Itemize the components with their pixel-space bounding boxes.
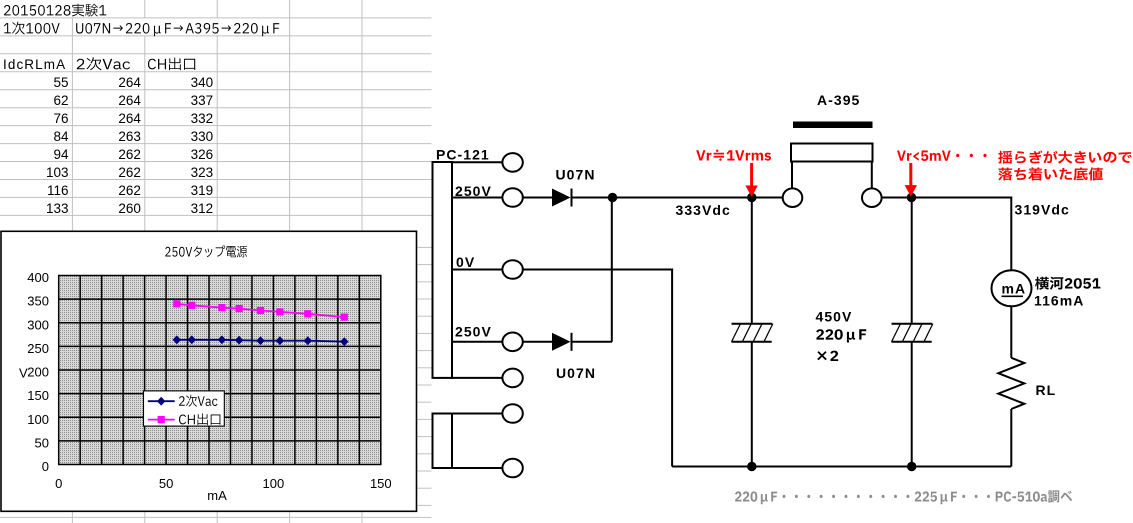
svg-text:262: 262 — [118, 147, 141, 162]
svg-text:337: 337 — [191, 93, 214, 108]
choke A-395 core bar — [793, 122, 873, 129]
svg-text:150: 150 — [27, 388, 49, 403]
transformer PC-121 primary/secondary box — [433, 162, 453, 378]
svg-text:250: 250 — [27, 341, 49, 356]
svg-text:76: 76 — [53, 111, 68, 126]
terminal 2 (250V) — [502, 188, 522, 207]
diode D1 U07N — [552, 189, 572, 207]
svg-text:100: 100 — [263, 476, 285, 491]
label 319Vdc — [1015, 202, 1070, 218]
junction C1 bottom — [747, 462, 756, 471]
capacitor C1 bottom lead — [751, 342, 753, 467]
svg-text:319Vdc: 319Vdc — [1015, 202, 1070, 218]
gray note 220uF/225uF PC-510a — [735, 490, 1072, 504]
svg-text:62: 62 — [53, 93, 68, 108]
svg-text:100: 100 — [27, 412, 49, 427]
svg-text:IdcRLmA: IdcRLmA — [3, 57, 66, 72]
svg-text:U07N: U07N — [556, 365, 596, 381]
svg-text:260: 260 — [118, 201, 141, 216]
choke terminal left — [783, 188, 803, 207]
choke lead left — [791, 162, 793, 189]
svg-text:A-395: A-395 — [817, 92, 860, 108]
label 333Vdc — [676, 202, 731, 218]
svg-text:50: 50 — [35, 436, 49, 451]
svg-text:150: 150 — [370, 476, 392, 491]
svg-text:350: 350 — [27, 294, 49, 309]
label U07N lower — [556, 365, 596, 381]
wire 250V upper to terminal 2 — [452, 197, 502, 199]
diode D2 U07N — [552, 333, 572, 351]
svg-text:323: 323 — [191, 165, 214, 180]
meter M1 mA — [992, 270, 1032, 306]
label 116mA — [1034, 293, 1084, 309]
wire 0V to terminal 3 — [452, 269, 502, 271]
wire D2 up to junction — [611, 198, 613, 342]
svg-text:332: 332 — [191, 111, 214, 126]
svg-text:0V: 0V — [456, 254, 475, 270]
label Yokogawa 2051 — [1035, 277, 1100, 290]
red annotation fluctuation line2 — [998, 167, 1103, 180]
label 450V 220uF x2 — [816, 308, 867, 361]
svg-text:U07N: U07N — [556, 167, 596, 183]
red annotation Vr≒1Vrms — [696, 150, 771, 161]
label 250V upper — [455, 183, 492, 199]
label 250V lower — [455, 324, 492, 340]
svg-text:50: 50 — [159, 476, 173, 491]
wire meter to resistor — [1010, 306, 1012, 358]
capacitor C2 top lead — [911, 198, 913, 324]
svg-text:mA: mA — [1002, 281, 1027, 297]
wire to terminal 1 — [452, 161, 502, 163]
svg-text:PC-121: PC-121 — [436, 147, 490, 163]
wire 0V down to bottom rail — [671, 269, 673, 467]
label U07N upper — [556, 167, 596, 183]
capacitor C2 bottom lead — [911, 342, 913, 467]
svg-text:0: 0 — [42, 459, 49, 474]
capacitor C2 220uF — [892, 324, 933, 342]
choke terminal right — [862, 188, 882, 207]
svg-text:319: 319 — [191, 183, 214, 198]
svg-text:264: 264 — [118, 93, 141, 108]
svg-text:RL: RL — [1036, 382, 1057, 398]
wire D1 cathode to node 333Vdc — [572, 197, 613, 199]
svg-text:250V: 250V — [455, 324, 492, 340]
terminal 5 — [502, 369, 522, 388]
svg-text:116: 116 — [47, 183, 69, 198]
wire D2 cathode right — [572, 341, 613, 343]
red arrow to C1 node — [745, 163, 757, 197]
choke lead right — [871, 162, 873, 189]
wire terminal 7 (box2 bottom) — [452, 467, 502, 469]
terminal 1 — [502, 153, 522, 172]
junction C2 bottom — [907, 462, 916, 471]
svg-text:333Vdc: 333Vdc — [676, 202, 731, 218]
wire node to right corner — [912, 197, 1012, 199]
svg-text:262: 262 — [118, 183, 141, 198]
red annotation fluctuation line1 — [998, 151, 1131, 164]
svg-text:312: 312 — [191, 201, 214, 216]
wire down to meter — [1010, 197, 1012, 271]
red arrow to 319 node — [905, 163, 917, 197]
svg-text:450V: 450V — [816, 308, 853, 324]
wire 0V run right — [523, 269, 673, 271]
svg-text:94: 94 — [53, 147, 69, 162]
wire terminal 6 (box2 top) — [452, 413, 502, 415]
svg-text:133: 133 — [46, 201, 69, 216]
choke A-395 label — [817, 92, 860, 108]
bottom rail wire — [672, 466, 1011, 468]
wire choke right to node 319 — [882, 197, 912, 199]
junction D1/D2 output — [608, 193, 617, 202]
wire terminal 2 to diode D1 — [523, 197, 552, 199]
svg-text:200: 200 — [27, 365, 49, 380]
svg-text:0: 0 — [55, 476, 62, 491]
choke A-395 winding — [791, 144, 873, 162]
svg-text:84: 84 — [53, 129, 69, 144]
svg-text:116mA: 116mA — [1034, 293, 1084, 309]
svg-text:55: 55 — [53, 75, 68, 90]
label RL — [1036, 382, 1057, 398]
node Vr junction at capacitor C1 — [747, 193, 756, 202]
wire junction to Vr node — [613, 197, 752, 199]
junction after choke — [907, 193, 916, 202]
svg-text:330: 330 — [191, 129, 214, 144]
transformer PC-121 lower winding box — [433, 414, 453, 469]
svg-text:mA: mA — [207, 488, 227, 503]
svg-text:340: 340 — [191, 75, 214, 90]
svg-text:326: 326 — [191, 147, 214, 162]
svg-text:264: 264 — [118, 75, 141, 90]
resistor RL — [998, 358, 1024, 409]
svg-text:V: V — [19, 366, 28, 381]
wire Vr node to choke left terminal — [752, 197, 783, 199]
wire terminal 5 (box1 bottom) — [452, 377, 502, 379]
terminal 3 (0V) — [502, 260, 522, 279]
svg-text:400: 400 — [27, 270, 49, 285]
svg-text:300: 300 — [27, 317, 49, 332]
wire terminal 4 to diode D2 — [523, 341, 552, 343]
svg-text:262: 262 — [118, 165, 141, 180]
capacitor C1 220uF top lead — [751, 198, 753, 324]
red annotation Vr<5mV — [897, 151, 987, 162]
wire 250V lower to terminal 4 — [452, 341, 502, 343]
svg-text:103: 103 — [46, 165, 69, 180]
label PC-121 — [436, 147, 490, 163]
capacitor C1 220uF — [732, 324, 773, 342]
svg-text:264: 264 — [118, 111, 141, 126]
svg-text:263: 263 — [118, 129, 141, 144]
terminal 6 — [502, 404, 522, 423]
terminal 4 (250V) — [502, 333, 522, 352]
wire resistor to bottom rail — [1010, 409, 1012, 467]
label 0V — [456, 254, 475, 270]
terminal 7 — [502, 459, 522, 478]
